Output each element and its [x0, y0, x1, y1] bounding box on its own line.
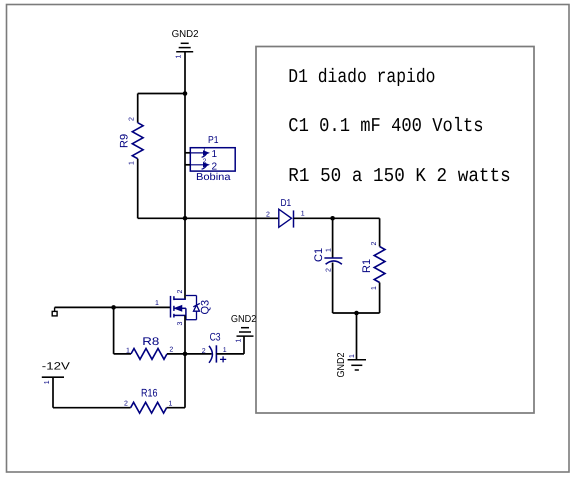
svg-text:C1 0.1 mF 400 Volts: C1 0.1 mF 400 Volts — [288, 115, 483, 137]
connector P1 box — [190, 148, 235, 171]
wire to D1 anode — [185, 217, 279, 219]
svg-text:2: 2 — [266, 212, 270, 219]
pin 1 arrow of P1 — [190, 151, 208, 157]
svg-text:R16: R16 — [141, 387, 158, 399]
node junction D1 — [183, 216, 188, 221]
svg-text:C1: C1 — [313, 248, 325, 262]
wire R16 right lead — [167, 407, 185, 409]
wire C1 lower lead — [332, 263, 334, 314]
svg-text:1: 1 — [326, 248, 333, 252]
svg-text:D1 diado rapido: D1 diado rapido — [288, 66, 435, 88]
capacitor C1 — [324, 257, 342, 259]
wire main spine — [184, 52, 186, 300]
svg-text:2: 2 — [212, 162, 218, 173]
wire R1 lower lead — [379, 283, 381, 314]
svg-text:D1: D1 — [281, 198, 292, 209]
power port GND2 top — [181, 42, 189, 44]
svg-text:1: 1 — [176, 55, 183, 59]
power port -12V — [42, 376, 64, 378]
svg-text:2: 2 — [203, 158, 207, 165]
svg-text:GND2: GND2 — [336, 352, 347, 377]
wire C3 right lead — [216, 353, 244, 355]
svg-text:1: 1 — [349, 354, 356, 358]
node junction source — [183, 352, 188, 357]
svg-text:2: 2 — [177, 290, 184, 294]
svg-text:2: 2 — [169, 346, 173, 353]
svg-text:R1 50 a 150 K 2 watts: R1 50 a 150 K 2 watts — [288, 165, 510, 187]
wire gate — [55, 306, 171, 308]
wire R16 left lead — [53, 407, 131, 409]
power port GND2 bottom — [348, 359, 366, 361]
svg-text:2: 2 — [371, 242, 378, 246]
wire R9 top — [138, 93, 185, 95]
resistor R8 — [131, 349, 167, 360]
svg-text:R9: R9 — [119, 134, 131, 148]
node junction GND bottom — [354, 311, 359, 316]
node junction gate — [111, 305, 116, 310]
svg-text:R1: R1 — [361, 259, 373, 273]
wire C3 to GND2 — [243, 337, 245, 354]
svg-text:1: 1 — [236, 339, 243, 343]
power port GND2 mid — [241, 327, 249, 329]
svg-text:GND2: GND2 — [172, 29, 199, 40]
svg-text:1: 1 — [126, 347, 130, 354]
svg-text:1: 1 — [371, 286, 378, 290]
svg-text:C3: C3 — [210, 332, 221, 344]
wire R9 lower lead — [137, 159, 139, 219]
svg-text:1: 1 — [169, 401, 173, 408]
svg-text:2: 2 — [124, 401, 128, 408]
svg-text:Q3: Q3 — [200, 300, 212, 315]
svg-text:GND2: GND2 — [231, 314, 257, 325]
wire to GND2 bottom — [356, 313, 358, 360]
wire source down — [184, 315, 186, 354]
pin 2 arrow of P1 — [190, 163, 208, 169]
port pad — [54, 307, 56, 311]
node junction C1 top — [330, 216, 335, 221]
wire gate to R8 — [113, 307, 115, 354]
wire R9 upper lead — [137, 94, 139, 123]
wire R1 upper lead — [379, 218, 381, 246]
wire -12V down — [52, 377, 54, 408]
svg-text:1: 1 — [203, 147, 207, 154]
wire C1-R1 bottom — [333, 312, 380, 314]
svg-text:-12V: -12V — [42, 361, 70, 373]
wire R9 bottom — [138, 217, 185, 219]
transistor Q3 — [171, 296, 186, 320]
resistor R9 — [132, 123, 143, 159]
wire P1 pin2 stub — [185, 164, 190, 166]
diode D1 — [279, 209, 292, 227]
svg-text:1: 1 — [155, 300, 159, 307]
svg-text:R8: R8 — [142, 336, 159, 348]
svg-text:3: 3 — [177, 322, 184, 326]
wire P1 pin1 stub — [185, 152, 190, 154]
capacitor C3 — [209, 346, 212, 363]
svg-text:1: 1 — [301, 211, 305, 218]
wire D1 cathode to R1 — [294, 217, 380, 219]
notes box — [256, 47, 534, 414]
wire R8 left lead — [114, 353, 131, 355]
wire R8 right lead — [167, 353, 185, 355]
node junction R9 top — [183, 91, 188, 96]
svg-text:1: 1 — [129, 161, 136, 165]
body diode of Q3 — [186, 296, 200, 320]
svg-text:2: 2 — [129, 117, 136, 121]
wire R16 up — [184, 354, 186, 408]
resistor R16 — [131, 402, 167, 413]
svg-text:1: 1 — [212, 149, 218, 160]
resistor R1 — [374, 247, 385, 283]
svg-text:Bobina: Bobina — [196, 172, 231, 183]
svg-text:2: 2 — [202, 348, 206, 355]
svg-text:2: 2 — [326, 268, 333, 272]
svg-text:1: 1 — [44, 380, 51, 384]
svg-text:P1: P1 — [208, 135, 219, 146]
wire C1 upper lead — [332, 218, 334, 257]
svg-text:1: 1 — [223, 347, 227, 354]
wire C3 left lead — [185, 353, 212, 355]
